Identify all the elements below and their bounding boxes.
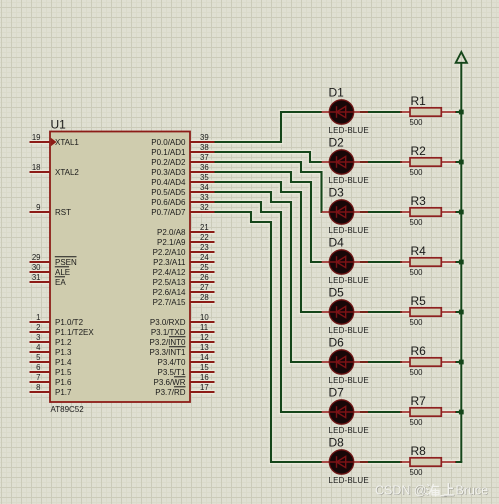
junction node at R2/rail xyxy=(459,160,464,165)
svg-text:17: 17 xyxy=(200,383,209,392)
pin 7 P1.6 stub xyxy=(30,381,51,383)
svg-text:P1.5: P1.5 xyxy=(55,368,72,377)
junction node at R4/rail xyxy=(459,260,464,265)
pin 32 P0.7/AD7 stub xyxy=(190,211,215,213)
wire D4 to R4 xyxy=(360,261,402,263)
pin 13 P3.3/INT1 stub xyxy=(190,351,215,353)
LED D4 body xyxy=(329,250,353,274)
wire R1 to rail xyxy=(455,111,462,113)
LED D4 leads xyxy=(322,261,369,263)
junction node at R3/rail xyxy=(459,210,464,215)
wire P0.1 to D2 xyxy=(215,152,323,162)
svg-text:9: 9 xyxy=(36,203,40,212)
pin 5 P1.4 stub xyxy=(30,361,51,363)
pin 27 P2.6/A14 stub xyxy=(190,291,215,293)
power rail vertical wire xyxy=(460,63,462,462)
pin 11 P3.1/TXD stub xyxy=(190,331,215,333)
LED D5 body xyxy=(329,300,353,324)
svg-text:26: 26 xyxy=(200,273,209,282)
overline ALE xyxy=(55,266,69,268)
svg-text:D3: D3 xyxy=(329,186,345,200)
resistor R3 leads xyxy=(400,211,456,213)
svg-text:8: 8 xyxy=(36,383,40,392)
svg-text:25: 25 xyxy=(200,263,209,272)
resistor R8 body xyxy=(410,458,441,466)
svg-text:34: 34 xyxy=(200,183,209,192)
svg-text:P0.3/AD3: P0.3/AD3 xyxy=(151,168,186,177)
svg-text:P3.0/RXD: P3.0/RXD xyxy=(150,318,186,327)
pin 36 P0.3/AD3 stub xyxy=(190,171,215,173)
LED D5 leads xyxy=(322,311,369,313)
LED D8 diode symbol xyxy=(330,456,353,468)
svg-text:5: 5 xyxy=(36,353,41,362)
svg-text:13: 13 xyxy=(200,343,209,352)
pin 8 P1.7 stub xyxy=(30,391,51,393)
pin 34 P0.5/AD5 stub xyxy=(190,191,215,193)
svg-text:16: 16 xyxy=(200,373,209,382)
svg-text:15: 15 xyxy=(200,363,209,372)
wire D8 to R8 xyxy=(360,461,402,463)
pin 14 P3.4/T0 stub xyxy=(190,361,215,363)
LED D2 leads xyxy=(322,161,369,163)
wire D3 to R3 xyxy=(360,211,402,213)
svg-text:36: 36 xyxy=(200,163,209,172)
svg-text:500: 500 xyxy=(410,418,424,427)
svg-text:PSEN: PSEN xyxy=(55,258,77,267)
svg-text:D6: D6 xyxy=(329,336,345,350)
watermark Bruce xyxy=(456,483,489,498)
svg-text:U1: U1 xyxy=(51,118,67,132)
wire P0.5 to D6 xyxy=(215,192,323,362)
LED D8 body xyxy=(329,450,353,474)
svg-text:P0.4/AD4: P0.4/AD4 xyxy=(151,178,186,187)
op chip U1 AT89C52 body xyxy=(50,132,190,403)
wire D5 to R5 xyxy=(360,311,402,313)
svg-text:32: 32 xyxy=(200,203,209,212)
svg-text:Bruce: Bruce xyxy=(456,483,489,497)
svg-text:R5: R5 xyxy=(411,294,427,308)
overline INT0 xyxy=(169,336,186,338)
svg-text:D2: D2 xyxy=(329,136,345,150)
svg-text:35: 35 xyxy=(200,173,209,182)
wire R5 to rail xyxy=(455,311,462,313)
pin 18 XTAL2 stub xyxy=(30,171,51,173)
pin 4 P1.3 stub xyxy=(30,351,51,353)
pin 28 P2.7/A15 stub xyxy=(190,301,215,303)
svg-text:P3.7/RD: P3.7/RD xyxy=(155,388,185,397)
svg-text:29: 29 xyxy=(32,253,41,262)
wire P0.7 to D8 xyxy=(215,212,323,462)
svg-text:P0.5/AD5: P0.5/AD5 xyxy=(151,188,186,197)
clock arrow on XTAL1 xyxy=(51,138,57,146)
svg-text:33: 33 xyxy=(200,193,209,202)
LED D1 body xyxy=(329,100,353,124)
svg-text:P2.5/A13: P2.5/A13 xyxy=(153,278,186,287)
pin 24 P2.3/A11 stub xyxy=(190,261,215,263)
pin 17 P3.7/RD stub xyxy=(190,391,215,393)
LED D7 leads xyxy=(322,411,369,413)
svg-text:19: 19 xyxy=(32,133,41,142)
svg-text:R2: R2 xyxy=(411,144,427,158)
pin 38 P0.1/AD1 stub xyxy=(190,151,215,153)
pin 37 P0.2/AD2 stub xyxy=(190,161,215,163)
pin 12 P3.2/INT0 stub xyxy=(190,341,215,343)
svg-text:LED-BLUE: LED-BLUE xyxy=(329,326,369,335)
wire R2 to rail xyxy=(455,161,462,163)
svg-text:XTAL2: XTAL2 xyxy=(55,168,79,177)
LED D4 diode symbol xyxy=(330,256,353,268)
svg-text:P1.3: P1.3 xyxy=(55,348,72,357)
svg-text:3: 3 xyxy=(36,333,40,342)
svg-text:P1.4: P1.4 xyxy=(55,358,72,367)
svg-text:P3.1/TXD: P3.1/TXD xyxy=(151,328,186,337)
resistor R1 leads xyxy=(400,111,456,113)
junction node at R7/rail xyxy=(459,410,464,415)
LED D1 leads xyxy=(322,111,369,113)
svg-text:D8: D8 xyxy=(329,436,345,450)
pin 35 P0.4/AD4 stub xyxy=(190,181,215,183)
pin 10 P3.0/RXD stub xyxy=(190,321,215,323)
LED D6 diode symbol xyxy=(330,356,353,368)
svg-text:P2.4/A12: P2.4/A12 xyxy=(153,268,186,277)
svg-text:P2.1/A9: P2.1/A9 xyxy=(157,238,186,247)
wire R4 to rail xyxy=(455,261,462,263)
svg-text:P1.0/T2: P1.0/T2 xyxy=(55,318,84,327)
wire D6 to R6 xyxy=(360,361,402,363)
svg-text:23: 23 xyxy=(200,243,209,252)
svg-text:P3.5/T1: P3.5/T1 xyxy=(157,368,186,377)
svg-text:500: 500 xyxy=(410,368,424,377)
resistor R8 leads xyxy=(400,461,456,463)
svg-text:22: 22 xyxy=(200,233,209,242)
svg-text:39: 39 xyxy=(200,133,209,142)
pin 19 XTAL1 stub xyxy=(30,141,51,143)
LED D7 diode symbol xyxy=(330,406,353,418)
wire D2 to R2 xyxy=(360,161,402,163)
pin 30 ALE stub xyxy=(30,271,51,273)
wire P0.6 to D7 xyxy=(215,202,323,412)
overline WR xyxy=(174,376,186,378)
svg-text:LED-BLUE: LED-BLUE xyxy=(329,376,369,385)
svg-text:21: 21 xyxy=(200,223,209,232)
overline RD xyxy=(174,386,186,388)
LED D5 diode symbol xyxy=(330,306,353,318)
svg-text:LED-BLUE: LED-BLUE xyxy=(329,226,369,235)
pin 21 P2.0/A8 stub xyxy=(190,231,215,233)
wire R3 to rail xyxy=(455,211,462,213)
svg-text:30: 30 xyxy=(32,263,41,272)
pin 25 P2.4/A12 stub xyxy=(190,271,215,273)
wire D7 to R7 xyxy=(360,411,402,413)
svg-text:27: 27 xyxy=(200,283,209,292)
svg-text:6: 6 xyxy=(36,363,40,372)
LED D7 body xyxy=(329,400,353,424)
LED D3 leads xyxy=(322,211,369,213)
pin 33 P0.6/AD6 stub xyxy=(190,201,215,203)
svg-text:7: 7 xyxy=(36,373,40,382)
svg-text:500: 500 xyxy=(410,468,424,477)
svg-text:P0.1/AD1: P0.1/AD1 xyxy=(151,148,186,157)
svg-text:31: 31 xyxy=(32,273,41,282)
svg-text:P1.1/T2EX: P1.1/T2EX xyxy=(55,328,94,337)
svg-text:500: 500 xyxy=(410,318,424,327)
wire R8 to rail xyxy=(455,461,462,463)
junction node at R1/rail xyxy=(459,110,464,115)
svg-text:P2.2/A10: P2.2/A10 xyxy=(153,248,186,257)
LED D3 diode symbol xyxy=(330,206,353,218)
svg-text:XTAL1: XTAL1 xyxy=(55,138,79,147)
watermark glyph hai (sea) xyxy=(425,484,439,497)
svg-text:D4: D4 xyxy=(329,236,345,250)
svg-text:R4: R4 xyxy=(411,244,427,258)
svg-text:37: 37 xyxy=(200,153,209,162)
svg-text:12: 12 xyxy=(200,333,209,342)
svg-text:P0.7/AD7: P0.7/AD7 xyxy=(151,208,186,217)
watermark CSDN @ xyxy=(375,483,427,498)
svg-text:RST: RST xyxy=(55,208,71,217)
svg-text:24: 24 xyxy=(200,253,209,262)
pin 39 P0.0/AD0 stub xyxy=(190,141,215,143)
wire R6 to rail xyxy=(455,361,462,363)
svg-text:P0.2/AD2: P0.2/AD2 xyxy=(151,158,186,167)
pin 6 P1.5 stub xyxy=(30,371,51,373)
resistor R1 body xyxy=(410,108,441,116)
overline EA xyxy=(55,276,65,278)
svg-text:1: 1 xyxy=(36,313,40,322)
svg-text:ALE: ALE xyxy=(55,268,70,277)
pin 29 PSEN stub xyxy=(30,261,51,263)
svg-text:R8: R8 xyxy=(411,444,427,458)
LED D6 leads xyxy=(322,361,369,363)
wire R7 to rail xyxy=(455,411,462,413)
LED D2 body xyxy=(329,150,353,174)
power terminal arrow xyxy=(456,52,467,63)
svg-text:500: 500 xyxy=(410,268,424,277)
overline INT1 xyxy=(169,346,186,348)
svg-text:P2.0/A8: P2.0/A8 xyxy=(157,228,186,237)
svg-text:D5: D5 xyxy=(329,286,345,300)
svg-text:LED-BLUE: LED-BLUE xyxy=(329,176,369,185)
resistor R7 leads xyxy=(400,411,456,413)
resistor R3 body xyxy=(410,208,441,216)
LED D3 body xyxy=(329,200,353,224)
svg-text:P0.0/AD0: P0.0/AD0 xyxy=(151,138,186,147)
watermark underscore xyxy=(441,495,447,497)
svg-text:P2.6/A14: P2.6/A14 xyxy=(153,288,186,297)
resistor R6 body xyxy=(410,358,441,366)
svg-text:D1: D1 xyxy=(329,86,345,100)
resistor R5 leads xyxy=(400,311,456,313)
wire P0.3 to D4 xyxy=(215,172,323,262)
resistor R4 body xyxy=(410,258,441,266)
svg-text:11: 11 xyxy=(200,323,208,332)
wire P0.0 to D1 xyxy=(215,112,323,142)
svg-text:28: 28 xyxy=(200,293,209,302)
svg-text:P1.6: P1.6 xyxy=(55,378,72,387)
svg-text:4: 4 xyxy=(36,343,41,352)
LED D2 diode symbol xyxy=(330,156,353,168)
svg-text:R6: R6 xyxy=(411,344,427,358)
svg-text:14: 14 xyxy=(200,353,209,362)
pin 15 P3.5/T1 stub xyxy=(190,371,215,373)
resistor R4 leads xyxy=(400,261,456,263)
svg-text:P2.3/A11: P2.3/A11 xyxy=(153,258,186,267)
resistor R7 body xyxy=(410,408,441,416)
junction node at R5/rail xyxy=(459,310,464,315)
svg-text:38: 38 xyxy=(200,143,209,152)
LED D8 leads xyxy=(322,461,369,463)
pin 26 P2.5/A13 stub xyxy=(190,281,215,283)
svg-text:CSDN @: CSDN @ xyxy=(375,483,427,497)
pin 16 P3.6/WR stub xyxy=(190,381,215,383)
junction node at R6/rail xyxy=(459,360,464,365)
pin 9 RST stub xyxy=(30,211,51,213)
pin 22 P2.1/A9 stub xyxy=(190,241,215,243)
watermark glyph shang (up) xyxy=(444,483,455,496)
svg-text:2: 2 xyxy=(36,323,40,332)
svg-text:P0.6/AD6: P0.6/AD6 xyxy=(151,198,186,207)
LED D6 body xyxy=(329,350,353,374)
svg-text:EA: EA xyxy=(55,278,66,287)
svg-text:R7: R7 xyxy=(411,394,427,408)
svg-text:LED-BLUE: LED-BLUE xyxy=(329,426,369,435)
svg-text:500: 500 xyxy=(410,218,424,227)
svg-text:P3.3/INT1: P3.3/INT1 xyxy=(149,348,186,357)
wire D1 to R1 xyxy=(360,111,402,113)
svg-text:LED-BLUE: LED-BLUE xyxy=(329,126,369,135)
svg-text:18: 18 xyxy=(32,163,41,172)
svg-text:500: 500 xyxy=(410,168,424,177)
pin 23 P2.2/A10 stub xyxy=(190,251,215,253)
pin 31 EA stub xyxy=(30,281,51,283)
svg-text:R1: R1 xyxy=(411,94,427,108)
pin 3 P1.2 stub xyxy=(30,341,51,343)
svg-text:P3.2/INT0: P3.2/INT0 xyxy=(149,338,186,347)
pin 1 P1.0/T2 stub xyxy=(30,321,51,323)
pin 2 P1.1/T2EX stub xyxy=(30,331,51,333)
wire P0.2 to D3 xyxy=(215,162,323,212)
svg-text:LED-BLUE: LED-BLUE xyxy=(329,276,369,285)
svg-text:D7: D7 xyxy=(329,386,345,400)
LED D1 diode symbol xyxy=(330,106,353,118)
svg-text:AT89C52: AT89C52 xyxy=(51,405,85,414)
resistor R2 leads xyxy=(400,161,456,163)
svg-text:P1.7: P1.7 xyxy=(55,388,72,397)
svg-text:P3.6/WR: P3.6/WR xyxy=(153,378,185,387)
svg-text:P2.7/A15: P2.7/A15 xyxy=(153,298,186,307)
resistor R5 body xyxy=(410,308,441,316)
resistor R2 body xyxy=(410,158,441,166)
svg-text:P1.2: P1.2 xyxy=(55,338,72,347)
svg-text:P3.4/T0: P3.4/T0 xyxy=(157,358,186,367)
svg-text:500: 500 xyxy=(410,118,424,127)
overline PSEN xyxy=(55,256,77,258)
wire P0.4 to D5 xyxy=(215,182,323,312)
svg-text:LED-BLUE: LED-BLUE xyxy=(329,476,369,485)
resistor R6 leads xyxy=(400,361,456,363)
svg-text:10: 10 xyxy=(200,313,209,322)
svg-text:R3: R3 xyxy=(411,194,427,208)
